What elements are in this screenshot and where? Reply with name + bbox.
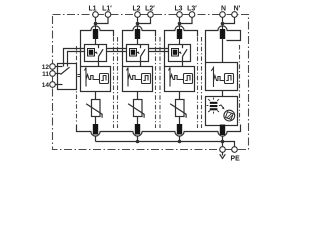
surge wave-breaker box (L3 module) — [165, 67, 195, 92]
thermal disconnector fuse element (L1 path) — [93, 29, 98, 39]
svg-text:12: 12 — [42, 64, 50, 71]
plug-in module boundaries (dash-dot) — [77, 37, 240, 128]
thermal disconnect switch (L2 module) — [127, 45, 149, 62]
module socket outline top (with plug-in contact arcs) — [81, 26, 241, 67]
wire signalling to monitoring line B — [68, 52, 85, 67]
wire fuse to switch (L2) — [137, 39, 139, 45]
svg-text:L3′: L3′ — [187, 6, 197, 13]
node L1 junction — [94, 22, 98, 26]
thermal disconnector fuse element (N path) — [220, 29, 225, 39]
wire L2/L2&apos; to junction — [138, 17, 151, 30]
wire varistor to lower fuse (L3) — [179, 117, 181, 125]
wire switch to wave box (L1) — [98, 62, 100, 67]
surge wave-breaker box (L1 module) — [81, 67, 111, 92]
terminal PE prime — [232, 147, 238, 153]
surge wave-breaker box (L2 module) — [123, 67, 153, 92]
wire wave box to spark gap (N) — [222, 91, 224, 97]
terminal 14 — [50, 82, 56, 88]
svg-text:N′: N′ — [234, 6, 241, 13]
wire varistor to lower fuse (L1) — [95, 117, 97, 125]
lower plug contact element (L3) — [177, 124, 182, 135]
wire N/N&apos; to junction — [223, 17, 235, 30]
label L1 prime — [102, 6, 112, 13]
terminal L3 prime — [189, 12, 195, 18]
wire switch to wave box (L2) — [140, 62, 142, 67]
terminal L1 — [93, 12, 99, 18]
node L2 junction — [136, 22, 140, 26]
lower plug contact element (L2) — [135, 124, 140, 135]
label L2 prime — [145, 6, 155, 13]
wire varistor to lower fuse (L2) — [137, 117, 139, 125]
remote signalling changeover contact (terminals 11-12-14) — [55, 64, 77, 90]
label N — [221, 6, 226, 13]
PE collecting bus — [96, 142, 235, 147]
svg-text:L2′: L2′ — [145, 6, 155, 13]
label 12 — [42, 64, 50, 71]
label 11 — [42, 71, 49, 78]
wire fuse to switch (L1) — [95, 39, 97, 45]
label L3 — [174, 6, 182, 13]
lower plug contact element (N) — [220, 125, 225, 136]
label N prime — [234, 6, 241, 13]
wire cup to PE bus (L3) — [179, 136, 181, 141]
module socket outline bottom (with plug-in contact cups) — [77, 125, 241, 137]
wire L3/L3&apos; to junction — [180, 17, 193, 30]
wire wave box to varistor (L2) — [137, 92, 139, 100]
terminal N — [220, 12, 226, 18]
svg-text:N: N — [221, 6, 226, 13]
PE bus junction at x=137.5 — [136, 140, 140, 144]
wire cup to PE bus (L1) — [95, 136, 97, 141]
earth arrow — [220, 152, 226, 158]
thermal disconnector fuse element (L3 path) — [177, 29, 182, 39]
wire wave box to varistor (L1) — [95, 92, 97, 100]
enclosure border (device outline, dash-dot) — [53, 15, 249, 150]
varistor (L3 path) — [170, 100, 186, 118]
wire spark gap to lower contact (N) — [222, 125, 224, 128]
terminal N prime — [232, 12, 238, 18]
terminal PE — [220, 147, 226, 153]
terminal 11 — [50, 71, 56, 77]
wire L1/L1&apos; to junction — [96, 17, 109, 30]
mechanical link dashes (signalling to module 1) — [78, 75, 81, 77]
PE bus junction at x=222.5 — [221, 140, 225, 144]
surge wave-breaker box (N module) — [206, 63, 238, 91]
label L3 prime — [187, 6, 197, 13]
varistor (L1 path) — [86, 100, 102, 118]
thermal disconnect switch (L3 module) — [169, 45, 191, 62]
lower plug contact element (L1) — [93, 124, 98, 135]
svg-text:L1: L1 — [88, 6, 96, 13]
terminal L2 — [135, 12, 141, 18]
label 14 — [42, 82, 50, 89]
terminal L2 prime — [148, 12, 154, 18]
terminal L1 prime — [105, 12, 111, 18]
wire N cup to PE bus — [222, 136, 224, 147]
monitoring chain between module 2 and 3 — [149, 49, 169, 52]
terminal L3 — [177, 12, 183, 18]
label L2 — [132, 6, 140, 13]
svg-text:L3: L3 — [174, 6, 182, 13]
wire cup to PE bus (L2) — [137, 136, 139, 141]
spark gap with quenching device (N-PE) — [206, 97, 238, 126]
thermal disconnect switch (L1 module) — [85, 45, 107, 62]
wire signalling to monitoring line A — [64, 49, 85, 67]
wire wave box to varistor (L3) — [179, 92, 181, 100]
svg-text:PE: PE — [231, 156, 241, 163]
wire N fuse to wave box — [222, 39, 224, 63]
svg-text:L1′: L1′ — [102, 6, 112, 13]
node N junction — [221, 22, 225, 26]
label PE — [231, 156, 241, 163]
wire switch to wave box (L3) — [182, 62, 184, 67]
svg-text:L2: L2 — [132, 6, 140, 13]
svg-text:11: 11 — [42, 71, 49, 78]
varistor (L2 path) — [128, 100, 144, 118]
thermal disconnector fuse element (L2 path) — [135, 29, 140, 39]
PE bus junction at x=179.5 — [178, 140, 182, 144]
terminal 12 — [50, 64, 56, 70]
label L1 — [88, 6, 96, 13]
monitoring chain between module 1 and 2 — [107, 49, 127, 52]
node L3 junction — [178, 22, 182, 26]
wire fuse to switch (L3) — [179, 39, 181, 45]
svg-text:14: 14 — [42, 82, 50, 89]
